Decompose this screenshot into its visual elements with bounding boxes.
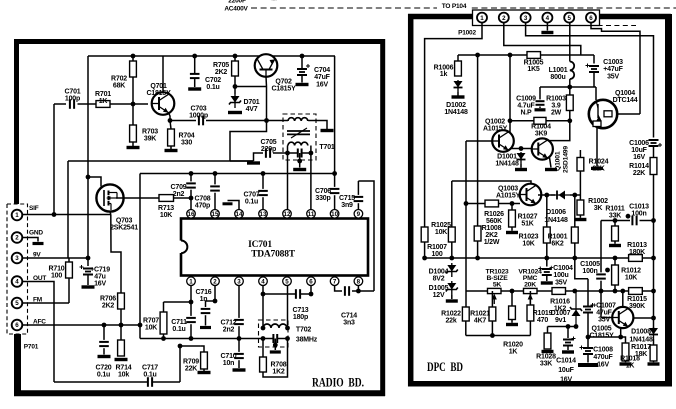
resistor R1025 xyxy=(448,227,455,242)
junction rail-C1013 xyxy=(651,218,656,223)
svg-text:0.1u: 0.1u xyxy=(143,372,156,379)
wire R705 stub xyxy=(234,56,236,61)
zener D1005 xyxy=(446,281,458,295)
label C704 47uF 16V xyxy=(314,67,331,88)
wire supply rail xyxy=(458,54,527,56)
junction D1001 node xyxy=(519,146,524,151)
dpc board border left xyxy=(408,14,414,387)
label C702 0.1u xyxy=(205,77,221,91)
junction bus-C706 xyxy=(332,171,337,176)
label R704 330 xyxy=(179,133,195,147)
wire Q1001 collector xyxy=(549,121,570,141)
ground T702 xyxy=(270,350,281,353)
wire SIF row xyxy=(23,214,111,216)
wire Q1005 base xyxy=(600,291,602,318)
junction C711-bus xyxy=(189,336,194,341)
label VR1024 PMC 20K xyxy=(518,269,542,289)
svg-text:C706: C706 xyxy=(315,188,331,195)
svg-text:3K9: 3K9 xyxy=(535,131,548,138)
svg-text:C703: C703 xyxy=(191,106,207,113)
capacitor C1013 xyxy=(632,216,636,226)
label D701 4V7 xyxy=(244,99,260,113)
junction 9V-gate xyxy=(86,175,91,180)
svg-text:R1008: R1008 xyxy=(482,225,502,232)
svg-text:R1007: R1007 xyxy=(427,244,447,251)
label D1002 1N4148 xyxy=(444,102,468,116)
svg-text:R1025: R1025 xyxy=(431,222,451,229)
IC pin 4 xyxy=(259,276,268,286)
label R1019 470 xyxy=(533,310,553,324)
wire R1008 bottom xyxy=(477,241,479,258)
svg-text:22K: 22K xyxy=(633,170,645,177)
junction AFC-C720 xyxy=(102,323,107,328)
ground R1017 xyxy=(648,362,660,365)
svg-text:L1001: L1001 xyxy=(549,67,568,74)
capacitor C706 xyxy=(330,174,340,211)
connector P1002 pin 3 xyxy=(521,13,531,23)
svg-text:14: 14 xyxy=(236,211,243,218)
connector pin 3 xyxy=(12,253,23,264)
wire base Q702 xyxy=(235,86,267,88)
radio board border left upper xyxy=(14,39,19,206)
label Q1002 A1015Y xyxy=(483,119,508,133)
wire C701 input xyxy=(54,103,66,105)
zener D1007 xyxy=(570,291,582,327)
radio board border bottom xyxy=(14,390,385,396)
wire R1021 bottom xyxy=(491,321,493,336)
wire Q1002 collector stem xyxy=(509,55,511,134)
label R1004 3K9 xyxy=(531,124,551,138)
junction SIF column xyxy=(52,212,57,217)
svg-text:1: 1 xyxy=(480,15,484,22)
junction emitter node xyxy=(618,335,623,340)
capacitor C719 polarized xyxy=(80,258,94,285)
junction rail-R702 xyxy=(131,54,136,59)
wire R1019 top xyxy=(529,291,531,305)
svg-text:Q703: Q703 xyxy=(116,218,133,225)
label D1001 1N4148 xyxy=(495,154,519,168)
wire pin1 row xyxy=(164,301,192,303)
ground pin14 xyxy=(223,202,233,205)
junction R1027 node xyxy=(510,201,515,206)
junction bus-C707 xyxy=(261,171,266,176)
label C710 10n xyxy=(221,353,237,367)
label R1013 180K xyxy=(627,242,647,256)
svg-text:390K: 390K xyxy=(629,303,645,310)
svg-text:35V: 35V xyxy=(555,279,567,286)
wire T701 primary right xyxy=(308,121,327,130)
wire C1007 feed jog xyxy=(575,258,588,279)
wire C1013 right xyxy=(640,220,654,222)
svg-text:22K: 22K xyxy=(592,166,604,173)
label C719 47u 16V xyxy=(90,267,110,288)
junction T701 right xyxy=(309,151,314,156)
svg-text:1: 1 xyxy=(15,212,19,219)
label R708 1K2 xyxy=(271,362,287,376)
capacitor C1014 polarized xyxy=(563,327,576,351)
ground R1027 xyxy=(506,231,518,234)
svg-text:D1006: D1006 xyxy=(546,209,566,216)
junction T702 bl xyxy=(261,336,266,341)
wire L1001 bottom xyxy=(569,79,571,87)
wire Q1004 base xyxy=(617,113,640,115)
connector P1002 pin 4 xyxy=(542,13,552,23)
wire R1027 stub xyxy=(511,204,513,211)
svg-text:R1020: R1020 xyxy=(503,342,523,349)
svg-text:C713: C713 xyxy=(293,307,309,314)
junction C1014 node xyxy=(566,324,571,329)
wire R1013 right xyxy=(642,257,653,259)
wire 9V top rail xyxy=(88,55,335,57)
junction pin8 node xyxy=(356,289,361,294)
wire R1004 row xyxy=(510,120,534,122)
resistor R1024 xyxy=(577,158,584,172)
wire pin1 stub xyxy=(190,286,192,303)
wire Q703 drain xyxy=(116,197,124,199)
junction L1001 node xyxy=(567,85,572,90)
svg-text:9v1: 9v1 xyxy=(555,317,566,324)
svg-text:470: 470 xyxy=(537,317,548,324)
junction bus-D1004 xyxy=(449,256,454,261)
label Q1001 2SD1499 rotated xyxy=(555,146,570,173)
resistor R1015 xyxy=(629,288,643,295)
junction R707-loop xyxy=(161,336,166,341)
label C1014 10uF 16V xyxy=(556,358,576,384)
wire pin3 path xyxy=(526,23,654,138)
dpc board border right xyxy=(665,14,672,387)
junction C1007-bottom xyxy=(586,335,591,340)
label R1028 33K xyxy=(536,354,556,368)
junction AFC-bus xyxy=(138,323,143,328)
T702 coil xyxy=(263,324,287,328)
resistor R1014 xyxy=(650,158,657,175)
svg-text:220p: 220p xyxy=(261,146,276,153)
capacitor C1008 polarized xyxy=(580,337,594,363)
wire C702 gnd stem xyxy=(194,78,196,87)
capacitor C702 xyxy=(190,74,200,78)
svg-text:Q1003: Q1003 xyxy=(498,186,518,193)
label R1011 33K xyxy=(605,206,625,220)
label R714 10k xyxy=(116,365,132,379)
wire R1022 bottom xyxy=(465,321,467,336)
svg-text:470p: 470p xyxy=(195,203,210,210)
capacitor C1009 xyxy=(536,87,545,108)
label C1006 10uF 16V xyxy=(629,140,649,161)
wire R1019 bottom xyxy=(529,321,531,336)
junction D1006 node xyxy=(572,193,577,198)
connector P1002 pin 2 xyxy=(499,13,509,23)
wire R1011 stem xyxy=(614,241,616,244)
junction rail-C704 xyxy=(300,54,305,59)
wire R1012 top xyxy=(614,258,616,265)
svg-text:C1003: C1003 xyxy=(603,59,623,66)
svg-text:1K: 1K xyxy=(99,98,108,105)
junction bus291-Q1005 xyxy=(599,289,604,294)
wire C703-T701 xyxy=(206,120,283,122)
trimmer VR1024 xyxy=(524,288,538,304)
wire node 326 row xyxy=(548,326,577,328)
svg-text:P1002: P1002 xyxy=(458,30,476,37)
svg-text:13: 13 xyxy=(260,211,267,218)
svg-text:1K5: 1K5 xyxy=(527,66,540,73)
wire rail mid xyxy=(653,175,655,221)
ground Q1004 xyxy=(591,167,603,170)
wire R1023 bottom xyxy=(546,243,548,258)
svg-text:R1017: R1017 xyxy=(631,344,651,351)
svg-text:Q1004: Q1004 xyxy=(615,90,635,97)
transformer T701 box xyxy=(283,114,316,160)
wire pin5 path xyxy=(569,23,571,62)
svg-text:4: 4 xyxy=(261,278,265,285)
wire dashed AC line to P104 xyxy=(251,7,676,9)
svg-text:5: 5 xyxy=(15,300,19,307)
svg-text:A1015Y: A1015Y xyxy=(483,126,508,133)
label C712 2n2 xyxy=(221,320,237,334)
svg-text:C1013: C1013 xyxy=(629,204,649,211)
wire 9V row xyxy=(23,257,88,259)
wire R714 stub xyxy=(120,325,122,340)
label R1007 100 xyxy=(427,244,447,258)
svg-text:6: 6 xyxy=(309,278,313,285)
svg-text:11: 11 xyxy=(308,211,315,218)
wire Q701 emitter xyxy=(169,113,171,121)
svg-text:1K: 1K xyxy=(509,349,518,356)
wire bottom bus xyxy=(140,338,273,340)
IC pin 11 xyxy=(307,210,316,219)
svg-text:6K2: 6K2 xyxy=(551,241,564,248)
label R1005 1K5 xyxy=(524,60,544,74)
label R1002 3K xyxy=(588,198,608,212)
wire R1018 top xyxy=(621,337,626,343)
wire Q1002 base column xyxy=(465,141,467,204)
label R701 1K xyxy=(95,91,111,105)
label C716 1n xyxy=(196,289,212,303)
junction T702 tl xyxy=(261,326,266,331)
resistor R1007 xyxy=(421,227,428,242)
junction bus291-D1007 xyxy=(572,289,577,294)
svg-text:C716: C716 xyxy=(196,289,212,296)
resistor R1019 xyxy=(527,305,534,321)
svg-text:100u: 100u xyxy=(553,272,568,279)
T701 secondary coil xyxy=(288,142,308,145)
svg-text:C720: C720 xyxy=(96,365,112,372)
capacitor T701 internal xyxy=(298,149,302,158)
svg-text:33K: 33K xyxy=(609,212,621,219)
ground Q1001 xyxy=(545,168,557,171)
junction bus291-R1012 xyxy=(613,289,618,294)
label C707 0.1u xyxy=(244,192,260,206)
label R1026 560K xyxy=(484,211,504,225)
junction T701 left xyxy=(285,151,290,156)
svg-text:2SD1499: 2SD1499 xyxy=(563,146,570,173)
wire R1002 corner xyxy=(579,194,581,196)
wire supply rail right xyxy=(541,54,595,56)
wire Q703 source xyxy=(109,212,112,215)
label R1015 390K xyxy=(627,296,647,310)
label Q1003 A1015Y xyxy=(496,186,521,200)
wire FM row xyxy=(23,302,69,304)
label R710 100 xyxy=(49,266,65,280)
svg-text:100p: 100p xyxy=(65,96,80,103)
svg-text:IC701: IC701 xyxy=(248,240,272,250)
ground T701 primary xyxy=(321,129,334,132)
svg-text:1N4148: 1N4148 xyxy=(495,161,519,168)
ground C1004 xyxy=(541,281,553,284)
svg-text:470uF: 470uF xyxy=(593,354,613,361)
wire C702 stem xyxy=(194,56,196,74)
svg-text:R1028: R1028 xyxy=(536,354,556,361)
wire bus 258 xyxy=(425,257,629,259)
label C720 0.1u xyxy=(96,365,112,379)
zener D1004 xyxy=(446,263,458,277)
label R1017 18K xyxy=(631,344,651,358)
label C1004 100u 35V xyxy=(549,265,573,286)
wire loop riser xyxy=(180,346,201,382)
svg-text:2n2: 2n2 xyxy=(173,191,185,198)
junction Q1002 top xyxy=(508,118,513,123)
svg-text:2: 2 xyxy=(502,15,506,22)
radio board border top xyxy=(14,39,385,44)
capacitor C1003 polarized xyxy=(586,55,600,87)
ground C1014 xyxy=(562,350,574,353)
svg-text:R704: R704 xyxy=(179,133,195,140)
svg-text:C1815Y: C1815Y xyxy=(271,86,296,93)
label R1024 22K xyxy=(589,159,609,173)
ground D1005 xyxy=(446,299,458,302)
svg-text:800u: 800u xyxy=(550,74,565,81)
ground C704 xyxy=(296,83,309,86)
label R1023 10K xyxy=(519,234,539,248)
transformer T702 box xyxy=(259,320,289,347)
wire R1012 bottom xyxy=(614,285,616,291)
svg-text:5: 5 xyxy=(285,278,289,285)
svg-text:0.1u: 0.1u xyxy=(245,199,258,206)
wire bus above IC xyxy=(140,173,335,175)
svg-text:C701: C701 xyxy=(65,89,81,96)
svg-text:C705: C705 xyxy=(261,139,277,146)
svg-text:100n: 100n xyxy=(582,268,597,275)
wire D1006 right xyxy=(570,194,580,196)
ground R1002 xyxy=(574,218,586,221)
wire pin6 path xyxy=(591,23,640,114)
svg-text:R713: R713 xyxy=(158,205,174,212)
wire T701 center tap xyxy=(299,153,301,168)
ground R1018 xyxy=(620,362,632,365)
svg-text:R1015: R1015 xyxy=(627,296,647,303)
svg-text:C1009: C1009 xyxy=(516,96,536,103)
svg-text:4V7: 4V7 xyxy=(246,106,258,113)
ground D1001 xyxy=(515,168,527,171)
svg-text:+C1007: +C1007 xyxy=(592,303,616,310)
label R1027 51K xyxy=(518,214,538,228)
resistor R1004 xyxy=(534,117,546,124)
stray junction near C1005 xyxy=(605,268,610,273)
svg-text:C717: C717 xyxy=(142,365,158,372)
resistor R704 xyxy=(168,129,175,146)
IC pin 13 xyxy=(259,210,268,219)
svg-text:D701: D701 xyxy=(244,99,260,106)
resistor R705 xyxy=(232,61,239,76)
wire Q1002 emitter row xyxy=(511,148,533,150)
wire R702 stub xyxy=(132,56,134,61)
label L1001 800u xyxy=(549,67,568,81)
svg-text:DPC BD: DPC BD xyxy=(427,359,463,374)
connector pin 5 xyxy=(12,298,23,309)
svg-text:16V: 16V xyxy=(597,361,609,368)
wire R704 stem xyxy=(170,146,172,149)
wire D1002 stem xyxy=(457,92,459,96)
connector P1002 pin 5 xyxy=(564,13,574,23)
svg-text:+C1004: +C1004 xyxy=(549,265,573,272)
svg-text:D1004: D1004 xyxy=(429,269,449,276)
svg-text:10K: 10K xyxy=(625,275,637,282)
IC pin 16 xyxy=(187,210,196,219)
resistor R1006 xyxy=(455,61,462,76)
wire Q1003 emitter row xyxy=(538,194,555,196)
svg-text:Q1002: Q1002 xyxy=(485,119,505,126)
wire Q1005 base lead xyxy=(601,317,612,319)
label R1012 10K xyxy=(621,268,641,282)
svg-text:R709: R709 xyxy=(183,359,199,366)
resistor R1011 xyxy=(612,226,619,241)
svg-text:2W: 2W xyxy=(551,110,562,117)
svg-text:47uF: 47uF xyxy=(596,310,612,317)
svg-text:180p: 180p xyxy=(293,314,308,321)
wire R706 bottom xyxy=(120,309,122,325)
resistor R1016 xyxy=(552,288,566,295)
label R1006 1k xyxy=(434,65,454,79)
svg-text:R1012: R1012 xyxy=(621,268,641,275)
junction pin1 node xyxy=(189,300,194,305)
svg-text:C1815Y: C1815Y xyxy=(146,90,171,97)
wire SIF column xyxy=(53,104,55,215)
wire R1003 bottom xyxy=(569,111,571,121)
wire R1023 top xyxy=(546,195,548,227)
svg-text:C1815Y: C1815Y xyxy=(589,333,614,340)
label R1001 6K2 xyxy=(548,234,568,248)
dpc board border top left xyxy=(408,14,473,20)
svg-text:GND: GND xyxy=(29,230,43,237)
wire pin1 path xyxy=(425,23,482,227)
label TR1023 B-SIZE 5K xyxy=(486,269,509,289)
wire node row 87 xyxy=(540,86,596,88)
svg-text:R1003: R1003 xyxy=(546,96,566,103)
wire R1007 bottom xyxy=(424,242,426,258)
label C708 470p xyxy=(195,196,211,210)
connector pin 2 xyxy=(12,232,23,243)
wire Q1005 emitter right xyxy=(633,317,653,319)
svg-text:DTC144: DTC144 xyxy=(613,97,638,104)
svg-text:R1014: R1014 xyxy=(629,163,649,170)
wire pin2 elbow xyxy=(206,286,216,308)
wire bus 291 left xyxy=(466,290,488,292)
svg-text:10uF: 10uF xyxy=(558,367,574,374)
svg-text:16V: 16V xyxy=(316,81,328,88)
wire D1001 stem xyxy=(520,164,522,168)
dpc board border bottom xyxy=(408,381,671,387)
svg-text:R707: R707 xyxy=(143,318,159,325)
svg-text:R1022: R1022 xyxy=(441,311,461,318)
capacitor C713 xyxy=(296,289,300,299)
svg-text:Q1005: Q1005 xyxy=(591,326,611,333)
svg-text:10uF: 10uF xyxy=(631,147,647,154)
T701 core xyxy=(287,128,310,138)
label R709 22K xyxy=(183,359,199,373)
IC pin 14 xyxy=(235,210,244,219)
svg-text:10K: 10K xyxy=(145,325,157,332)
terminal bar D1002 xyxy=(452,95,465,98)
connector P1002 pin 1 xyxy=(477,13,487,23)
